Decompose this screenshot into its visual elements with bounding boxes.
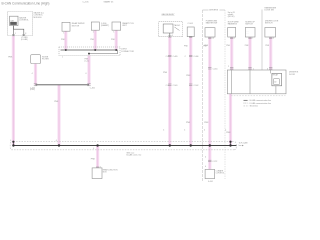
svg-text:PNK: PNK bbox=[226, 132, 231, 134]
svg-text:: F-CAN communication line: : F-CAN communication line bbox=[249, 102, 271, 105]
svg-text:(C-1): (C-1) bbox=[85, 60, 89, 62]
svg-text:4: 4 bbox=[93, 148, 94, 150]
svg-text:4: 4 bbox=[56, 140, 57, 142]
svg-text:B-CAN Communication Line (High: B-CAN Communication Line (High) bbox=[2, 1, 50, 5]
svg-text:4: 4 bbox=[204, 130, 205, 132]
svg-text:4: 4 bbox=[172, 35, 173, 37]
svg-text:4: 4 bbox=[85, 73, 86, 75]
svg-text:SWITCH: SWITCH bbox=[265, 23, 273, 25]
svg-text:HARNESS: HARNESS bbox=[228, 23, 238, 26]
svg-text:UNIT: UNIT bbox=[122, 25, 127, 27]
svg-text:PNK: PNK bbox=[186, 122, 191, 124]
svg-text:4: 4 bbox=[184, 130, 185, 132]
svg-text:C-406: C-406 bbox=[194, 56, 199, 58]
svg-text:CONTROL: CONTROL bbox=[19, 20, 30, 22]
svg-text:C-2: C-2 bbox=[166, 56, 169, 58]
svg-text:4: 4 bbox=[10, 140, 11, 142]
svg-text:(F-CAN): (F-CAN) bbox=[21, 38, 28, 41]
svg-text:B-CAN comm. line: B-CAN comm. line bbox=[127, 153, 142, 156]
svg-text:C-405: C-405 bbox=[173, 56, 178, 58]
svg-text:(SMART): (SMART) bbox=[101, 24, 110, 27]
svg-text:line ▶: line ▶ bbox=[239, 144, 245, 147]
svg-text:DZ: DZ bbox=[274, 81, 276, 83]
svg-text:(PNK): (PNK) bbox=[30, 89, 35, 91]
svg-text:C-501: C-501 bbox=[188, 23, 194, 25]
svg-text:C-4 05: C-4 05 bbox=[83, 1, 90, 3]
svg-text:4: 4 bbox=[205, 156, 206, 158]
svg-text:C-722: C-722 bbox=[212, 161, 217, 163]
svg-text:PNK: PNK bbox=[54, 101, 59, 103]
svg-text:RELAY: RELAY bbox=[273, 74, 279, 77]
svg-text:1: 1 bbox=[15, 33, 16, 35]
svg-text:FILTER: FILTER bbox=[42, 59, 49, 61]
svg-text:G-501: G-501 bbox=[208, 181, 213, 183]
svg-text:2: 2 bbox=[234, 38, 235, 40]
svg-text:4: 4 bbox=[32, 73, 33, 75]
svg-text:model:: model: bbox=[228, 14, 234, 16]
svg-text:CONTROL: CONTROL bbox=[216, 173, 225, 175]
svg-text:4: 4 bbox=[205, 166, 206, 168]
svg-text:1: 1 bbox=[113, 32, 114, 34]
svg-text:DRIVER'S: DRIVER'S bbox=[209, 10, 219, 12]
svg-text:CONNECTOR: CONNECTOR bbox=[121, 51, 134, 53]
svg-text:PNK: PNK bbox=[91, 158, 96, 160]
svg-text:8: 8 bbox=[25, 33, 26, 35]
svg-text:TACHO: TACHO bbox=[174, 24, 181, 27]
svg-text:DOOR SW: DOOR SW bbox=[265, 10, 274, 12]
svg-text:1: 1 bbox=[63, 33, 64, 35]
svg-text:SWITCH: SWITCH bbox=[245, 24, 253, 26]
svg-text:C-3: C-3 bbox=[166, 85, 169, 87]
svg-text:2: 2 bbox=[228, 66, 229, 68]
svg-text:1: 1 bbox=[62, 57, 63, 59]
svg-text:SMART 05: SMART 05 bbox=[104, 0, 115, 3]
svg-text:C-651: C-651 bbox=[213, 68, 218, 70]
svg-text:4: 4 bbox=[163, 130, 164, 132]
svg-text:: B-CAN communication line: : B-CAN communication line bbox=[249, 99, 271, 102]
svg-text:PNK: PNK bbox=[186, 75, 191, 77]
svg-text:MASTER SW: MASTER SW bbox=[206, 22, 218, 25]
svg-text:PNK: PNK bbox=[163, 72, 168, 74]
svg-text:DOOR: DOOR bbox=[289, 74, 296, 76]
svg-text:(ROOF): (ROOF) bbox=[228, 16, 235, 18]
svg-text:MOTOR: MOTOR bbox=[72, 25, 80, 27]
svg-text:C-502: C-502 bbox=[194, 85, 199, 87]
svg-text:MODULE: MODULE bbox=[34, 17, 43, 19]
svg-text:6: 6 bbox=[273, 38, 274, 40]
svg-text:: Shield line: : Shield line bbox=[249, 106, 258, 108]
svg-text:10: 10 bbox=[212, 38, 214, 40]
svg-text:PNK: PNK bbox=[8, 57, 13, 59]
svg-text:C-406: C-406 bbox=[90, 87, 95, 89]
svg-text:1: 1 bbox=[252, 38, 253, 40]
svg-text:PNK: PNK bbox=[204, 122, 209, 124]
svg-text:1: 1 bbox=[93, 32, 94, 34]
svg-text:C-501: C-501 bbox=[173, 85, 178, 87]
svg-text:GAUGE ASSY: GAUGE ASSY bbox=[162, 13, 176, 16]
